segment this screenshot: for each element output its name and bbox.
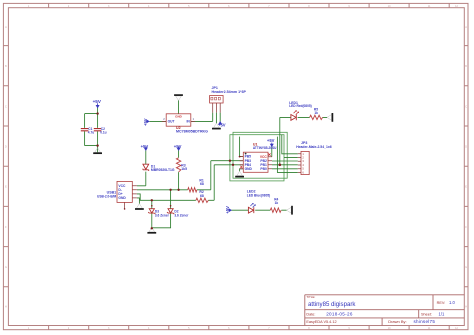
svg-text:ATTINY85-20SU: ATTINY85-20SU — [253, 146, 277, 150]
svg-text:GND: GND — [245, 167, 253, 171]
svg-text:attiny85 digispark: attiny85 digispark — [308, 301, 356, 308]
svg-text:OUT: OUT — [168, 120, 175, 124]
svg-text:F: F — [465, 226, 467, 229]
svg-text:E: E — [5, 186, 7, 189]
svg-text:TITLE:: TITLE: — [306, 295, 315, 299]
svg-text:D: D — [5, 146, 7, 149]
svg-text:+5V: +5V — [218, 123, 226, 128]
svg-text:3.6 Zener: 3.6 Zener — [174, 214, 189, 218]
svg-text:+5V: +5V — [141, 144, 149, 149]
svg-text:6: 6 — [302, 170, 304, 174]
svg-text:B: B — [465, 65, 467, 68]
svg-text:1.0: 1.0 — [449, 300, 455, 305]
svg-text:2: 2 — [302, 156, 304, 160]
svg-text:MBR0520LT1G: MBR0520LT1G — [151, 168, 175, 172]
svg-text:1k: 1k — [275, 201, 279, 205]
svg-text:1/1: 1/1 — [439, 311, 445, 316]
svg-text:Date:: Date: — [306, 312, 315, 316]
svg-text:E: E — [465, 186, 467, 189]
svg-text:H: H — [5, 306, 7, 309]
svg-text:+5V: +5V — [267, 138, 275, 143]
svg-text:EasyEDA V5.4.12: EasyEDA V5.4.12 — [306, 320, 336, 324]
svg-text:+5V: +5V — [143, 118, 148, 126]
svg-text:LED Red(0805): LED Red(0805) — [289, 104, 312, 108]
svg-text:GND: GND — [118, 196, 126, 200]
svg-text:Header2.54mm 1*3P: Header2.54mm 1*3P — [212, 90, 247, 94]
svg-text:F: F — [5, 226, 7, 229]
svg-text:3.6 Zener: 3.6 Zener — [155, 214, 170, 218]
svg-text:MC78M05BDTRKG: MC78M05BDTRKG — [176, 130, 208, 134]
svg-text:1k5: 1k5 — [181, 167, 187, 171]
svg-text:+5V: +5V — [225, 206, 230, 214]
svg-text:shinsel75: shinsel75 — [414, 319, 436, 324]
svg-text:A: A — [465, 26, 467, 29]
svg-text:4.7u: 4.7u — [88, 130, 94, 134]
svg-text:2018-05-26: 2018-05-26 — [326, 311, 353, 316]
svg-text:A: A — [5, 26, 7, 29]
svg-text:Sheet:: Sheet: — [421, 312, 432, 316]
svg-text:H: H — [465, 306, 467, 309]
svg-text:+5V: +5V — [174, 144, 182, 149]
svg-text:LED Blue(0805): LED Blue(0805) — [247, 193, 270, 197]
svg-text:0.1u: 0.1u — [100, 130, 106, 134]
svg-text:4: 4 — [302, 163, 304, 167]
svg-text:IN: IN — [186, 120, 190, 124]
svg-text:PB0: PB0 — [260, 167, 267, 171]
svg-text:1: 1 — [193, 117, 195, 121]
svg-text:+5V: +5V — [93, 99, 102, 104]
svg-text:68: 68 — [200, 182, 204, 186]
svg-text:1k: 1k — [314, 111, 318, 115]
svg-text:B: B — [5, 65, 7, 68]
svg-text:Header-Male-2.54_1x6: Header-Male-2.54_1x6 — [296, 145, 332, 149]
svg-text:G: G — [465, 266, 467, 269]
svg-text:USB-2.0-B/M: USB-2.0-B/M — [97, 194, 116, 198]
svg-text:G: G — [5, 266, 7, 269]
svg-text:GND: GND — [175, 114, 183, 118]
svg-text:C: C — [465, 105, 467, 108]
svg-text:5: 5 — [302, 167, 304, 171]
svg-text:D: D — [465, 146, 467, 149]
svg-text:2: 2 — [163, 117, 165, 121]
svg-text:Drawn By:: Drawn By: — [388, 319, 406, 324]
svg-text:REV:: REV: — [437, 301, 446, 305]
svg-text:3: 3 — [302, 159, 304, 163]
svg-text:68: 68 — [200, 194, 204, 198]
svg-text:C: C — [5, 105, 7, 108]
svg-text:1: 1 — [302, 152, 304, 156]
